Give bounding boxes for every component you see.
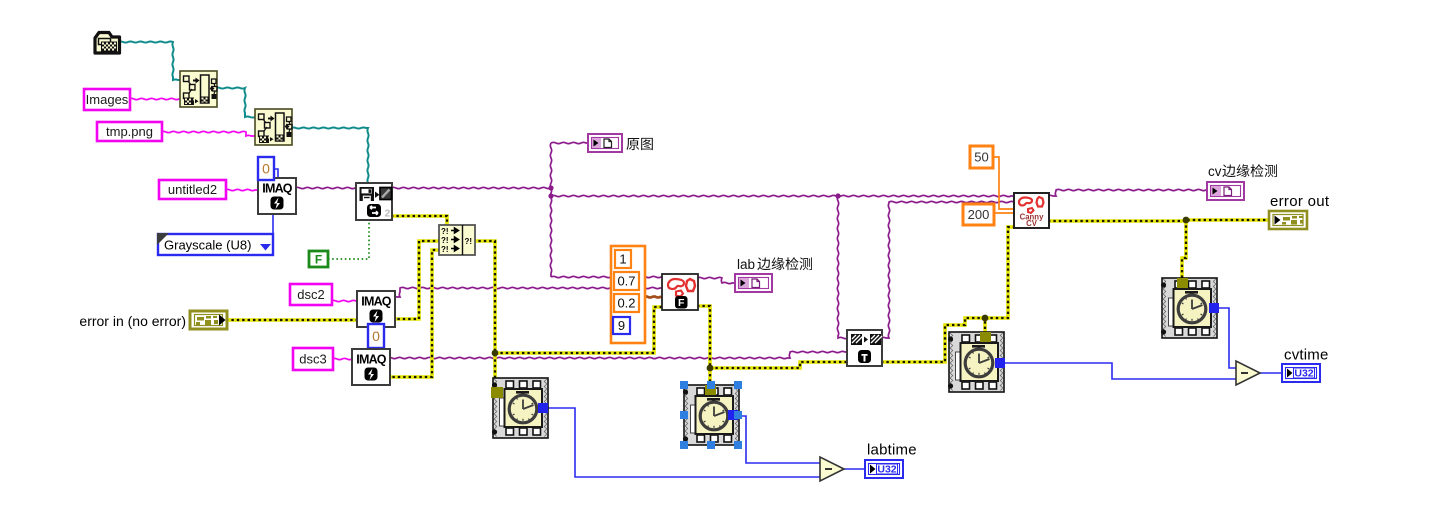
numeric constant 200 [963,204,994,225]
wire: purple vertical at x551 [550,143,551,277]
svg-text:200: 200 [968,207,990,222]
indicator lab边缘检测 [735,274,772,292]
junction: purple at (838,196) [835,193,840,198]
svg-text:Images: Images [86,92,129,107]
wire: tmp.png to Build Path 2 [161,131,255,136]
wire: IMAQ Copy out to Canny CV input 2 [881,201,1015,338]
wire: 0 constant to IMAQ Create 1 [274,169,278,179]
svg-text:dsc3: dsc3 [299,352,326,367]
error in (no error) control [190,311,227,329]
subtract node (labtime) [820,457,844,481]
string constant dsc3 [293,348,333,370]
svg-text:?!: ?! [441,236,449,245]
junction: error at (495,353) [492,350,499,357]
wire: dsc2 to IMAQ Create 2 [331,300,358,301]
svg-text:IMAQ: IMAQ [356,353,387,367]
wire: lab subVI error out down to junction 2 [697,306,710,390]
wire: Merge Errors out, down to junction [473,241,495,389]
Tick Count clock 2 (selected) [683,385,739,445]
indicator 原图 [588,134,622,152]
junction: purple at (551,196) [548,193,553,198]
wire: Build Path 2 to IMAQ Write [291,127,369,184]
Tick Count 2 ms output terminal [728,410,738,420]
label: 原图 [626,138,639,150]
wire: subtract out to labtime U32 [844,468,866,470]
wire: IMAQ Write error to Merge Errors [391,216,447,226]
Tick Count clock 4 [1161,278,1217,338]
Tick Count 4 error terminal [1177,278,1188,288]
svg-text:0: 0 [372,328,380,344]
numeric constant 0 (top) [258,157,274,180]
svg-text:F: F [678,297,685,309]
junction: error at (985,318) [982,315,989,322]
junction: error at (1186,220) [1183,217,1190,224]
wire: dsc2 image to lab subVI input 2 [392,287,663,297]
svg-text:dsc2: dsc2 [297,287,324,302]
subtract node (cvtime) [1236,361,1260,385]
svg-text:U32: U32 [1294,368,1313,380]
string constant dsc2 [290,284,332,305]
svg-text:9: 9 [618,318,625,333]
Tick Count 2 error terminal [705,385,716,395]
wire: Canny CV image out to cv indicator [1048,189,1208,196]
string constant Images [84,89,130,110]
svg-text:0.2: 0.2 [617,296,635,311]
Build Path VI 2 [255,109,292,145]
enum constant Grayscale (U8) [157,233,273,255]
numeric constant 50 [970,146,993,168]
Tick Count 1 error terminal [491,387,503,398]
svg-text:F: F [315,253,322,267]
svg-text:0: 0 [262,161,270,177]
Tick Count clock 1 [492,378,548,438]
wire: lab subVI image out to lab indicator [697,277,736,283]
IMAQ Write File node [356,183,392,220]
svg-text:untitled2: untitled2 [168,182,217,197]
svg-text:IMAQ: IMAQ [361,295,392,309]
svg-text:IMAQ: IMAQ [262,182,293,196]
wire: F constant to IMAQ Write [328,221,369,259]
Build Path VI 1 [180,71,217,107]
Tick Count 1 ms output terminal [538,403,548,413]
wire: Tick Count 4 to subtract (cvtime) [1218,308,1236,368]
svg-text:cv: cv [1208,164,1222,179]
wire: IMAQ Write image out, main purple bus [391,187,551,188]
Tick Count 3 ms output terminal [995,358,1005,368]
wire: IMAQ Create 1 to Grayscale enum [272,214,274,234]
wire: dsc3 image to IMAQ Copy input 2 [387,351,848,358]
wire: Tick Count 1 to subtract (labtime) [548,408,820,477]
svg-text:error out: error out [1270,193,1330,210]
wire: Canny CV error out to error out indicator [1048,220,1270,221]
junction: purple at (551,188) [548,185,553,190]
wire: error branch down to Tick Count 4 [1182,220,1186,282]
wire: 50 to Canny CV [992,157,1015,209]
wire: untitled2 to IMAQ Create 1 [225,189,259,190]
Tick Count clock 3 [948,332,1004,392]
wire: main purple bus to Canny CV [551,195,1015,196]
wire: IMAQ Create 3 error to Merge Errors [387,250,440,377]
junction: error at (710,368) [707,365,714,372]
Tick Count 3 error terminal [980,332,991,342]
IMAQ Create 3 (U3) [352,349,390,385]
folder path constant [95,33,120,54]
Merge Errors VI [439,225,475,255]
svg-text:tmp.png: tmp.png [106,124,153,139]
wire: purple branch down to IMAQ Copy input 1 [837,196,848,339]
svg-text:0.7: 0.7 [617,274,635,289]
wire: 200 to Canny CV [993,212,1015,214]
wire: IMAQ Copy error out staircase to junction 3 [881,318,985,362]
wire: error branch up to Canny CV [985,227,1015,318]
string constant tmp.png [97,122,162,141]
indicator cv边缘检测 [1207,182,1244,200]
string constant untitled2 [159,180,226,199]
wire: error branch right to lab subVI [495,307,663,353]
wire: subtract out to cvtime U32 [1260,372,1283,374]
wire: Build Path 1 to Build Path 2 [215,87,256,117]
svg-text:?!: ?! [465,237,473,246]
Canny CV subVI (U6) [1014,193,1049,228]
wire: Tick Count 2 to subtract (labtime) [738,416,820,463]
cluster constant {1, 0.7, 0.2, 9} [611,246,645,343]
wire: cluster constant to lab subVI [644,297,663,298]
indicator cvtime U32 [1282,364,1320,382]
svg-text:CV: CV [1026,219,1038,228]
svg-text:50: 50 [974,150,988,165]
svg-text:1: 1 [619,252,626,267]
wire: IMAQ Create 1 to IMAQ Write [295,187,357,188]
svg-text:lab: lab [737,257,755,272]
svg-text:cvtime: cvtime [1284,347,1329,364]
error out indicator [1269,211,1307,229]
wire: Tick Count 3 to subtract (cvtime) [1005,363,1236,379]
svg-text:error in (no error): error in (no error) [79,313,186,329]
wire: dsc3 to IMAQ Create 3 [332,358,353,359]
svg-text:U32: U32 [877,464,896,476]
wire: error in to IMAQ Create 2 [226,318,358,322]
svg-text:labtime: labtime [867,442,917,459]
wire: branch to 原图 indicator [551,142,589,143]
IMAQ Copy node (U5) [847,330,882,366]
Tick Count 4 ms output terminal [1209,303,1219,313]
wire: branch down to lab subVI input 1 [551,276,663,277]
wire: error branch right to IMAQ Copy [710,362,848,368]
wire: Images to Build Path 1 [129,98,181,99]
wire: IMAQ Create 2 error to Merge Errors [392,241,440,319]
wire: folder path to Build Path 1 [118,41,182,80]
lab edge-detect subVI (U4) [662,274,698,310]
IMAQ Create 2 (U2) [357,291,395,327]
selection handles around Tick Count 2 [680,381,688,389]
svg-text:Grayscale (U8): Grayscale (U8) [164,238,251,253]
svg-text:?!: ?! [441,227,449,236]
indicator labtime U32 [865,460,903,478]
boolean constant F (false) [309,251,328,267]
svg-text:?!: ?! [441,245,449,254]
IMAQ Create 1 (U1) [258,178,296,214]
svg-text:2: 2 [385,208,391,220]
numeric constant 0 (middle) [368,324,384,348]
